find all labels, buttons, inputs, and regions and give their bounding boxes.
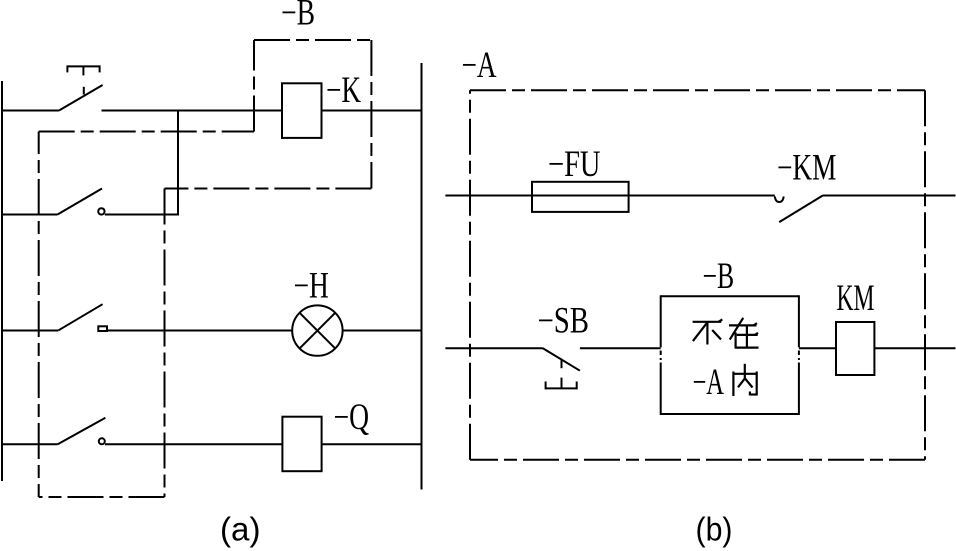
contact KM hook terminal	[775, 197, 784, 203]
svg-text:−A: −A	[693, 361, 725, 402]
fuse FU box	[532, 182, 629, 212]
svg-text:−KM: −KM	[777, 147, 837, 188]
svg-text:−B: −B	[703, 255, 735, 296]
wire row2 left	[1, 214, 58, 216]
text line2: character 内	[733, 364, 757, 396]
wire row1 right to coil	[102, 110, 283, 112]
wire row3 left	[1, 330, 59, 332]
switch S4 blade	[58, 418, 106, 445]
text line1: character 不	[693, 319, 723, 344]
switch S1 pushbutton actuator	[67, 65, 99, 94]
vertical wire node	[177, 111, 179, 216]
block B box (b)	[661, 295, 799, 415]
switch S2 contact circle	[98, 208, 104, 214]
wire row3 lamp to right bus	[343, 330, 422, 332]
wire row1 left	[1, 110, 59, 112]
wire row4 left	[1, 443, 58, 445]
switch S3 contact square	[98, 326, 107, 331]
left bus (a)	[1, 81, 3, 481]
boundary -B dash-dot polygon	[39, 40, 372, 497]
wire b2 left	[445, 347, 542, 349]
wire b2 box B to coil KM	[799, 347, 836, 349]
switch S3 blade	[59, 304, 103, 330]
lamp H cross	[300, 313, 336, 349]
pushbutton SB blade	[542, 348, 580, 371]
switch S1 blade	[59, 85, 103, 111]
text line1: character 在	[729, 318, 759, 349]
wire b1 left through fuse	[445, 195, 774, 197]
lamp H circle	[292, 305, 342, 355]
enclosure -A dash-dot box	[470, 90, 925, 460]
svg-text:−K: −K	[326, 69, 361, 110]
svg-text:−SB: −SB	[538, 299, 590, 340]
switch S2 blade	[58, 189, 103, 215]
wire row2 right	[105, 214, 178, 216]
svg-text:−H: −H	[294, 264, 329, 305]
svg-text:(a): (a)	[220, 511, 261, 548]
svg-text:(b): (b)	[696, 511, 733, 548]
svg-text:KM: KM	[837, 277, 875, 318]
coil KM box	[836, 322, 874, 375]
contact KM blade	[779, 195, 823, 222]
wire row4 right	[105, 443, 282, 445]
wire b1 right	[823, 195, 956, 197]
wire row1 coil to right bus	[322, 110, 422, 112]
pushbutton SB actuator	[546, 359, 577, 390]
right bus (a)	[421, 63, 423, 490]
relay coil K box	[282, 83, 322, 138]
switch S4 contact circle	[99, 438, 105, 444]
svg-text:−FU: −FU	[548, 143, 601, 184]
svg-text:−B: −B	[281, 0, 315, 33]
wire b2 SB to box B	[580, 347, 661, 349]
svg-text:−Q: −Q	[334, 396, 370, 437]
wire row4 box to right bus	[322, 443, 422, 445]
svg-text:−A: −A	[462, 44, 497, 85]
box Q	[282, 417, 321, 472]
wire b2 coil to right	[874, 347, 955, 349]
wire row3 to lamp	[107, 330, 292, 332]
